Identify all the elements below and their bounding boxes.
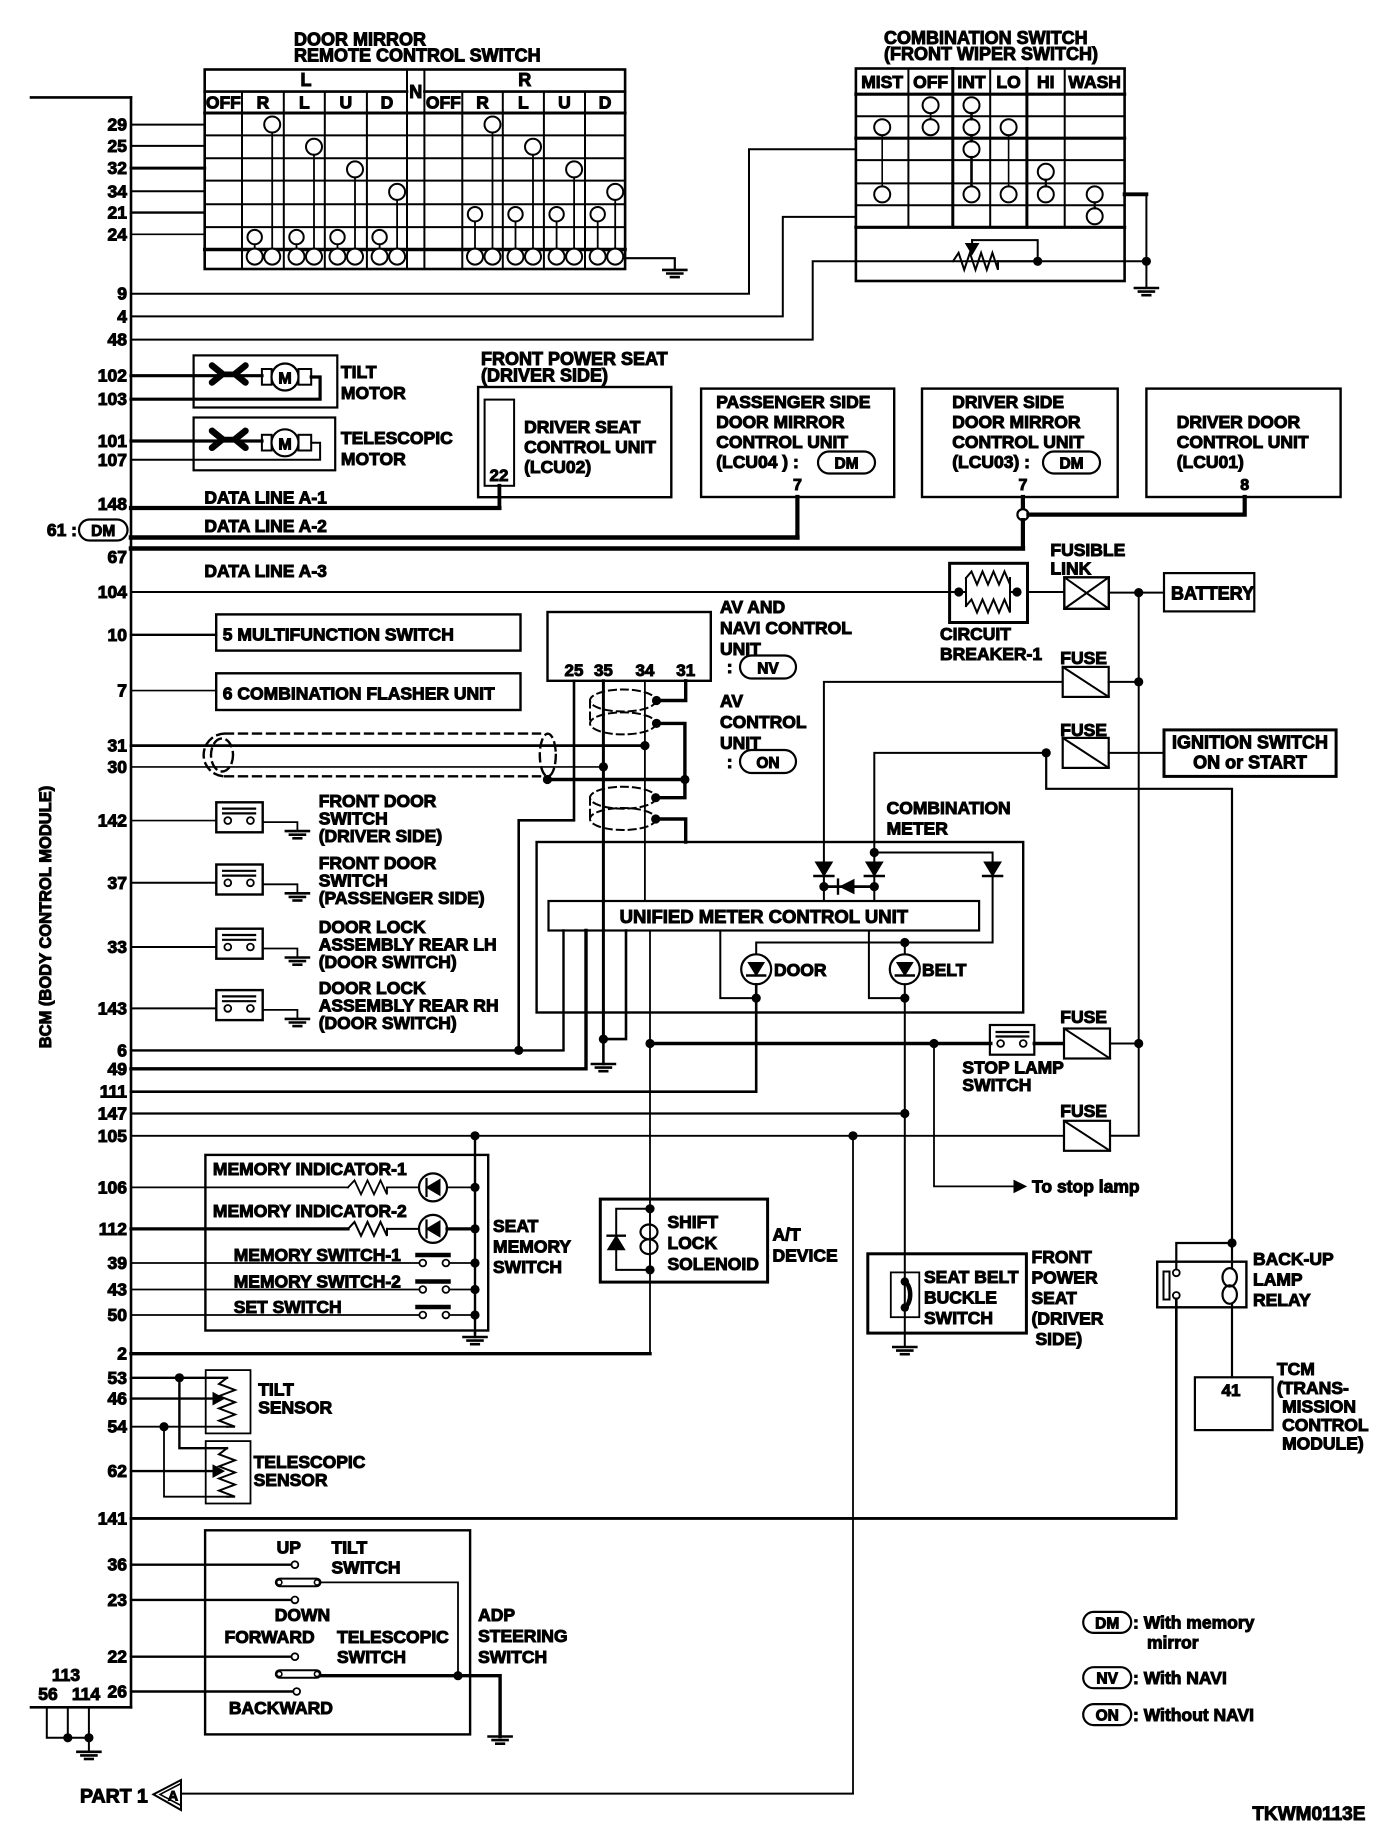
wire LCU02 pin 22 to data line A-1	[497, 486, 501, 508]
svg-text:111: 111	[100, 1082, 128, 1102]
node shield drain lower-2	[651, 814, 660, 823]
memory switch 2	[131, 1289, 419, 1291]
node pin 54 branch	[159, 1422, 168, 1431]
svg-text:DRIVER SEAT: DRIVER SEAT	[524, 417, 641, 437]
svg-text:TKWM0113E: TKWM0113E	[1252, 1804, 1365, 1825]
wire pin 53 branch to telescopic sensor top	[179, 1378, 227, 1448]
memory switch vertical bus	[474, 1136, 476, 1333]
svg-text:D: D	[599, 93, 612, 113]
svg-text:A/T: A/T	[773, 1225, 802, 1245]
svg-text:148: 148	[98, 494, 127, 514]
wire pin 32 to mirror switch table	[131, 167, 205, 170]
wire DATA LINE A-3	[131, 546, 1023, 551]
svg-text:FUSE: FUSE	[1060, 1007, 1107, 1027]
svg-text:DATA LINE A-2: DATA LINE A-2	[204, 516, 327, 536]
driver seat control unit LCU02 box	[478, 387, 671, 497]
node relay top junction	[1227, 1238, 1236, 1247]
wire pin 54 branch to telescopic bottom	[164, 1427, 227, 1497]
svg-text:MEMORY SWITCH-1: MEMORY SWITCH-1	[234, 1245, 401, 1265]
fuse 4	[1064, 1121, 1110, 1151]
svg-text:TELESCOPIC: TELESCOPIC	[341, 428, 453, 448]
wire pin 29 to mirror switch table	[131, 124, 205, 126]
wire tilt switch blade to common	[321, 1582, 459, 1671]
svg-text:34: 34	[635, 661, 654, 680]
fuse 2	[1063, 738, 1109, 768]
svg-text:L: L	[299, 93, 310, 113]
node fuse1 battery junction	[1134, 677, 1143, 686]
node BELT lamp bottom junction	[900, 994, 909, 1003]
node ground junction 114	[84, 1733, 93, 1742]
svg-text:SEAT BELT: SEAT BELT	[924, 1267, 1019, 1287]
svg-text:41: 41	[1222, 1381, 1241, 1400]
svg-text:ON or START: ON or START	[1193, 753, 1307, 773]
svg-text:BACK-UP: BACK-UP	[1253, 1249, 1334, 1269]
svg-text:NV: NV	[1096, 1671, 1118, 1688]
svg-text:(DRIVER: (DRIVER	[1032, 1309, 1104, 1329]
node fuse2 relay branch junction	[1042, 748, 1051, 757]
node ADP common junction	[453, 1671, 462, 1680]
meter horizontal diode	[824, 885, 874, 888]
svg-text:143: 143	[98, 998, 127, 1018]
wire fuse1 feed down to meter diode	[824, 682, 1063, 862]
shielded cable coil lower	[590, 787, 656, 830]
driver side door mirror control unit LCU03 box	[922, 389, 1118, 497]
seat memory switch box	[205, 1155, 488, 1331]
svg-text:CONTROL UNIT: CONTROL UNIT	[716, 432, 848, 452]
node diode2 lower	[870, 882, 879, 891]
seat belt buckle switch contacts	[901, 1277, 909, 1285]
svg-text:mirror: mirror	[1147, 1633, 1199, 1653]
wire fuse 1 to battery feed	[1109, 681, 1139, 683]
svg-text:CONTROL: CONTROL	[1282, 1415, 1369, 1435]
oval DM at pin 61	[79, 520, 128, 541]
node switch1 junction	[470, 1258, 479, 1267]
svg-text:SWITCH: SWITCH	[962, 1075, 1031, 1095]
svg-text:25: 25	[108, 136, 128, 156]
node circuit breaker right	[1012, 587, 1021, 596]
DOOR warning lamp	[741, 954, 771, 984]
node shield drain upper-2	[652, 719, 661, 728]
wire pin 23 tilt switch down contact	[131, 1599, 292, 1601]
node shield drain upper-1	[652, 696, 661, 705]
svg-text:34: 34	[108, 181, 128, 201]
wiper switch table grid	[856, 69, 1125, 282]
svg-text:METER: METER	[887, 819, 949, 839]
relay contact	[1164, 1272, 1170, 1300]
svg-text:UNIFIED METER CONTROL UNIT: UNIFIED METER CONTROL UNIT	[620, 906, 909, 927]
door lock assembly rear RH switch	[131, 1007, 216, 1009]
wire BELT top tap	[904, 943, 906, 955]
ADP steering switch box	[205, 1530, 470, 1734]
telescopic motor clutch symbol	[212, 431, 246, 448]
wire pin 2 to solenoid	[131, 1352, 650, 1355]
wiper intermittent potentiometer	[953, 253, 998, 270]
wire telescopic blade to ground	[321, 1676, 501, 1737]
svg-text:8: 8	[1240, 477, 1249, 494]
wire relay contact to coil feed	[1176, 1243, 1232, 1269]
svg-text:23: 23	[108, 1590, 128, 1610]
shift lock solenoid coil	[649, 1209, 651, 1225]
svg-text:BREAKER-1: BREAKER-1	[940, 644, 1042, 664]
node BELT top junction	[900, 938, 909, 947]
fusible link symbol	[1064, 577, 1109, 609]
node pin 31 junction on AV34 wire	[640, 741, 649, 750]
wire UMCU to stop lamp switch	[650, 1042, 991, 1045]
svg-text:25: 25	[565, 661, 584, 680]
driver door control unit LCU01 box	[1146, 389, 1340, 497]
svg-text:U: U	[558, 93, 571, 113]
svg-text:WASH: WASH	[1068, 72, 1121, 92]
wire pin 7 to combination flasher unit	[131, 690, 216, 692]
wire DATA LINE A-2	[131, 535, 797, 540]
svg-text:21: 21	[108, 203, 128, 223]
svg-text:PART 1: PART 1	[80, 1786, 148, 1808]
svg-text:D: D	[381, 93, 394, 113]
svg-text:REMOTE CONTROL SWITCH: REMOTE CONTROL SWITCH	[294, 46, 541, 66]
wire AV pin 25 down-jog to pin 6 line	[519, 681, 574, 1051]
svg-text:101: 101	[98, 431, 127, 451]
telescopic motor M	[262, 435, 272, 451]
wire pin 36 tilt switch up contact	[131, 1563, 292, 1565]
node indicator2 junction	[470, 1224, 479, 1233]
node to-stop-lamp branch junction	[929, 1039, 938, 1048]
wire pin 21 to mirror switch table	[131, 211, 205, 213]
svg-text:142: 142	[98, 811, 127, 831]
svg-text:7: 7	[1018, 477, 1027, 494]
svg-text:DATA LINE A-3: DATA LINE A-3	[204, 561, 327, 581]
oval ON	[740, 750, 796, 773]
wire pin 53 to tilt sensor top	[131, 1377, 227, 1379]
meter diode 3	[984, 862, 1001, 876]
legend oval ON	[1083, 1704, 1131, 1725]
wire diode2 top to diode 3	[874, 853, 992, 863]
node battery junction	[1134, 588, 1143, 597]
wire LCU04 pin 7 to data line A-2	[795, 497, 799, 538]
node part1 branch junction	[848, 1131, 857, 1140]
svg-text:NV: NV	[757, 661, 779, 678]
A/T device box	[600, 1199, 767, 1282]
svg-text:(FRONT WIPER SWITCH): (FRONT WIPER SWITCH)	[884, 44, 1098, 64]
svg-text:DM: DM	[1095, 1615, 1119, 1632]
svg-text:AV AND: AV AND	[720, 597, 785, 617]
svg-text:DM: DM	[91, 523, 115, 540]
svg-text:SWITCH: SWITCH	[332, 1558, 401, 1578]
svg-text:(DRIVER SIDE): (DRIVER SIDE)	[481, 366, 608, 386]
node pin 30 junction on AV35 wire	[599, 762, 608, 771]
telescopic sensor resistor	[219, 1448, 235, 1497]
svg-text:(LCU01): (LCU01)	[1177, 452, 1244, 472]
door mirror switch table header labels	[206, 70, 612, 113]
node meter diode1 lower	[819, 882, 828, 891]
wire pin 4 to wiper switch	[131, 217, 856, 317]
wire pin 147 to BELT wire	[131, 1112, 905, 1114]
svg-text:L: L	[301, 70, 312, 90]
wire stop lamp switch to fuse 3	[1034, 1042, 1064, 1045]
wire BCM bottom stub	[31, 1706, 131, 1709]
wiper switch contact circles	[874, 97, 1102, 224]
svg-text:U: U	[340, 93, 353, 113]
svg-text:LOCK: LOCK	[668, 1233, 718, 1253]
AV unit pin labels 25 35 34 31	[565, 661, 696, 680]
tilt sensor box	[206, 1370, 251, 1433]
node DOOR lamp bottom junction	[752, 994, 761, 1003]
svg-text:(TRANS-: (TRANS-	[1277, 1378, 1349, 1398]
svg-text:INT: INT	[957, 72, 986, 92]
svg-text:113: 113	[52, 1665, 80, 1685]
svg-text:PASSENGER SIDE: PASSENGER SIDE	[716, 392, 870, 412]
svg-text:35: 35	[594, 661, 613, 680]
svg-text:DRIVER SIDE: DRIVER SIDE	[952, 392, 1064, 412]
memory switch 1	[131, 1262, 419, 1264]
svg-text:ON: ON	[756, 755, 779, 772]
svg-text:TILT: TILT	[332, 1538, 368, 1558]
relay coil	[1223, 1268, 1237, 1286]
svg-text:105: 105	[98, 1126, 127, 1146]
wire fuse2 branch to back-up lamp relay	[1046, 753, 1232, 1268]
svg-text:CIRCUIT: CIRCUIT	[940, 624, 1011, 644]
wire pin 106 memory indicator 1	[131, 1186, 348, 1188]
svg-text:7: 7	[793, 477, 802, 494]
node shield drain lower-1	[651, 793, 660, 802]
svg-text:37: 37	[108, 873, 127, 893]
svg-text:LO: LO	[996, 72, 1020, 92]
svg-text:(LCU04 ) :: (LCU04 ) :	[716, 452, 799, 472]
BCM body control module connector rail	[130, 97, 133, 1707]
svg-text:(DOOR SWITCH): (DOOR SWITCH)	[319, 952, 457, 972]
svg-text:N: N	[409, 82, 422, 102]
front door switch driver side	[131, 820, 216, 822]
BELT warning lamp	[890, 954, 920, 984]
wire pin 112 memory indicator 2	[131, 1227, 348, 1230]
wire mirror switch common to ground	[625, 258, 675, 270]
wire pin 9 to wiper switch	[131, 149, 856, 293]
svg-text:: With memory: : With memory	[1133, 1613, 1255, 1633]
node shield bus right	[680, 775, 689, 784]
svg-text:IGNITION SWITCH: IGNITION SWITCH	[1172, 733, 1328, 753]
node shield drain pair	[543, 775, 552, 784]
svg-text:: Without NAVI: : Without NAVI	[1133, 1705, 1254, 1725]
wire pin 48 to wiper potentiometer	[131, 261, 1038, 339]
svg-text:103: 103	[98, 389, 127, 409]
svg-text:: With NAVI: : With NAVI	[1133, 1668, 1227, 1688]
oval DM in LCU03	[1043, 452, 1100, 474]
svg-text:46: 46	[108, 1389, 128, 1409]
node circuit breaker left	[954, 587, 963, 596]
svg-text:SET SWITCH: SET SWITCH	[234, 1297, 342, 1317]
shield around pins 31/30 pair	[204, 734, 556, 777]
svg-text:56: 56	[38, 1684, 58, 1704]
BCM pin number labels	[47, 115, 127, 1702]
wire part 1 to pin 105 branch	[181, 1793, 853, 1795]
svg-text:SHIFT: SHIFT	[668, 1212, 719, 1232]
meter diode 1	[815, 862, 832, 876]
svg-text:R: R	[476, 93, 489, 113]
wire pin 105 to fuse 4	[131, 1135, 1064, 1137]
wire fusible link to battery	[1109, 592, 1164, 594]
svg-text:50: 50	[108, 1305, 128, 1325]
wire DOOR lamp to pin 111	[131, 984, 756, 1091]
wire fuse 2 to ignition switch	[1109, 752, 1164, 754]
node indicator1 junction	[470, 1183, 479, 1192]
svg-text::: :	[727, 657, 733, 677]
node potentiometer junction	[1033, 257, 1042, 266]
svg-text:36: 36	[108, 1555, 128, 1575]
svg-text:32: 32	[108, 158, 128, 178]
svg-text:SWITCH: SWITCH	[493, 1257, 562, 1277]
circuit breaker 1 box	[950, 563, 1028, 622]
node stop lamp feed junction	[645, 1039, 654, 1048]
svg-text:SOLENOID: SOLENOID	[668, 1254, 759, 1274]
set switch	[131, 1314, 419, 1316]
svg-text:(DRIVER SIDE): (DRIVER SIDE)	[319, 826, 442, 846]
memory indicator 2 LED	[387, 1228, 419, 1230]
IGNITION SWITCH box	[1164, 730, 1336, 777]
combination meter box	[537, 842, 1024, 1013]
svg-text:ADP: ADP	[478, 1605, 515, 1625]
wire BCM ground stubs	[47, 1707, 89, 1738]
svg-text:48: 48	[108, 330, 128, 350]
tilt motor clutch symbol	[212, 366, 246, 383]
svg-text:DM: DM	[1059, 456, 1083, 473]
node wiper ground rail junction	[1142, 257, 1151, 266]
wire fuse2 feed down to meter diode 2	[874, 753, 1046, 862]
shielded cable coil upper	[590, 690, 656, 735]
svg-text:53: 53	[108, 1368, 128, 1388]
wire UMCU ground pins	[603, 931, 626, 1040]
wire shield lower-2 to meter box	[656, 819, 686, 842]
svg-text:BUCKLE: BUCKLE	[924, 1288, 997, 1308]
door mirror switch table grid	[205, 70, 625, 270]
wire pin 22 telescopic forward contact	[131, 1655, 292, 1657]
svg-text:SEAT: SEAT	[493, 1216, 539, 1236]
svg-text:MEMORY INDICATOR-2: MEMORY INDICATOR-2	[213, 1201, 407, 1221]
svg-text:FUSE: FUSE	[1060, 648, 1107, 668]
wire wiper switch output to ground rail	[1125, 192, 1147, 196]
svg-text:MEMORY INDICATOR-1: MEMORY INDICATOR-1	[213, 1159, 407, 1179]
node fuse3 battery junction	[1134, 1039, 1143, 1048]
ground BCM	[77, 1752, 100, 1759]
svg-text:R: R	[518, 70, 531, 90]
svg-text:RELAY: RELAY	[1253, 1290, 1311, 1310]
ground ADP steering switch	[489, 1737, 512, 1744]
node switch2 junction	[470, 1285, 479, 1294]
wire circuit breaker to fusible link	[1028, 591, 1065, 593]
wire pin 62 telescopic wiper arrow	[131, 1470, 213, 1472]
wire pin 107 to telescopic motor	[131, 443, 320, 460]
svg-text:6: 6	[117, 1040, 127, 1060]
svg-text:(LCU03) :: (LCU03) :	[952, 452, 1030, 472]
svg-text:COMBINATION: COMBINATION	[887, 798, 1011, 818]
wire pin 25 to mirror switch table	[131, 145, 205, 147]
svg-text:MISSION: MISSION	[1282, 1397, 1356, 1417]
svg-text:FUSE: FUSE	[1060, 1101, 1107, 1121]
svg-text:DOWN: DOWN	[275, 1605, 330, 1625]
mirror switch contact circles right half	[467, 117, 623, 265]
svg-text:DEVICE: DEVICE	[773, 1246, 838, 1266]
svg-text:24: 24	[108, 224, 128, 244]
wire pin 10 to multifunction switch	[131, 634, 216, 636]
legend oval DM	[1083, 1612, 1131, 1633]
svg-text:114: 114	[72, 1684, 100, 1704]
svg-text:LINK: LINK	[1050, 559, 1091, 579]
svg-text:31: 31	[676, 661, 695, 680]
svg-text:MEMORY SWITCH-2: MEMORY SWITCH-2	[234, 1272, 401, 1292]
ground UMCU	[592, 1064, 615, 1071]
svg-text:104: 104	[98, 582, 127, 602]
back-up lamp relay box	[1157, 1262, 1246, 1308]
ground seat belt switch	[893, 1347, 916, 1354]
wire BCM top stub	[31, 96, 131, 99]
tilt motor M	[262, 369, 272, 385]
wire shield upper-2 to bus	[657, 723, 685, 779]
svg-text:FUSIBLE: FUSIBLE	[1050, 540, 1125, 560]
svg-text:61 :: 61 :	[47, 520, 77, 540]
UNIFIED METER CONTROL UNIT box	[549, 901, 980, 931]
svg-text:54: 54	[108, 1417, 128, 1437]
svg-text:TCM: TCM	[1277, 1359, 1315, 1379]
svg-text:TILT: TILT	[341, 362, 377, 382]
ground wiper switch	[1135, 288, 1158, 295]
wiper switch header labels	[861, 72, 1121, 92]
circuit breaker elements	[959, 572, 1017, 613]
fuse 1	[1063, 667, 1109, 697]
svg-text:BCM (BODY CONTROL MODULE): BCM (BODY CONTROL MODULE)	[37, 786, 55, 1048]
wire pin 24 to mirror switch table	[131, 233, 205, 235]
wire part1 branch down	[852, 1136, 854, 1794]
svg-text:DATA LINE A-1: DATA LINE A-1	[204, 488, 327, 508]
memory indicator 1 resistor	[348, 1180, 387, 1194]
telescopic switch blade	[276, 1670, 321, 1678]
ground mirror switch	[663, 270, 686, 277]
node set switch junction	[470, 1310, 479, 1319]
wire pin 31 to AV pin 34	[131, 744, 645, 747]
combination flasher unit box 6	[216, 673, 520, 710]
svg-text:MOTOR: MOTOR	[341, 449, 406, 469]
wire UMCU pin to stop lamp switch line	[649, 931, 651, 1354]
svg-text:43: 43	[108, 1280, 128, 1300]
BATTERY box	[1164, 573, 1254, 611]
svg-text:BACKWARD: BACKWARD	[229, 1698, 333, 1718]
svg-text:CONTROL: CONTROL	[720, 712, 807, 732]
wire AV pin 35 down to UMCU and ground	[602, 681, 605, 1039]
svg-text:LAMP: LAMP	[1253, 1270, 1303, 1290]
svg-text:SWITCH: SWITCH	[478, 1647, 547, 1667]
wire pin 46 tilt wiper arrow	[131, 1397, 213, 1399]
svg-text:SWITCH: SWITCH	[924, 1308, 993, 1328]
wire pin 103 to tilt motor	[131, 377, 320, 399]
svg-text:L: L	[518, 93, 529, 113]
wire pin 141 to back-up lamp relay	[131, 1517, 1176, 1520]
potentiometer wiper arrow	[967, 240, 978, 253]
wire DATA LINE A-1	[131, 506, 499, 510]
tilt motor box	[194, 355, 338, 407]
tilt sensor resistor	[219, 1378, 235, 1427]
wire relay coil to TCM	[1231, 1304, 1233, 1378]
svg-text:107: 107	[98, 450, 127, 470]
node pin 25 to pin 6 junction	[514, 1046, 523, 1055]
svg-text:102: 102	[98, 366, 127, 386]
svg-text:6 COMBINATION FLASHER UNIT: 6 COMBINATION FLASHER UNIT	[223, 684, 495, 704]
svg-text:POWER: POWER	[1032, 1268, 1098, 1288]
svg-text:4: 4	[117, 306, 127, 326]
svg-text:MIST: MIST	[861, 72, 903, 92]
node solenoid bottom	[645, 1265, 654, 1274]
svg-text:(PASSENGER SIDE): (PASSENGER SIDE)	[319, 888, 485, 908]
svg-text:OFF: OFF	[913, 72, 948, 92]
svg-text:SENSOR: SENSOR	[258, 1398, 332, 1418]
node open junction LCU03/LCU01 to data line A-3	[1017, 509, 1028, 520]
ground memory switch	[474, 1333, 476, 1337]
